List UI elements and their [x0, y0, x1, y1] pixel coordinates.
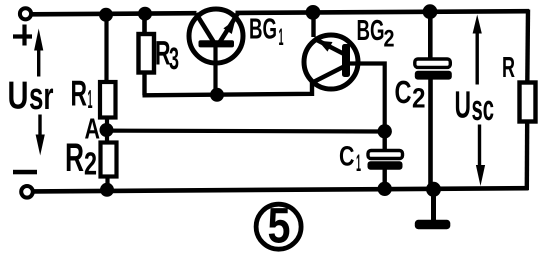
svg-text:5: 5 [268, 198, 291, 254]
svg-text:sr: sr [29, 76, 54, 118]
label R2 [65, 136, 97, 182]
svg-text:1: 1 [356, 150, 361, 177]
node dot BG1 base [210, 88, 224, 102]
terminal + input [20, 8, 31, 19]
svg-text:BG: BG [249, 13, 277, 45]
BG1 emitter arrowhead [223, 20, 235, 34]
svg-text:A: A [85, 114, 101, 146]
wire top rail right (BG1 emitter to right corner) [236, 11, 530, 13]
BG2 base bar [342, 44, 350, 77]
svg-text:C: C [395, 74, 412, 110]
wire right rail upper [525, 10, 530, 85]
node dot R1 top [99, 8, 113, 22]
transistor BG2 [304, 35, 358, 89]
wire bottom rail [33, 188, 529, 191]
label Usc [455, 85, 495, 128]
svg-text:1: 1 [279, 24, 284, 51]
capacitor C1 [368, 131, 403, 190]
node dot C2 top rail [423, 4, 438, 19]
ground [415, 189, 451, 229]
BG2 emitter line [314, 39, 343, 54]
minus sign [13, 170, 37, 175]
resistor R [520, 83, 536, 122]
capacitor C2 [415, 12, 452, 190]
resistor R3 [139, 34, 155, 73]
figure number 5 [256, 198, 301, 254]
label R1 [71, 73, 93, 115]
BG1 base lead [213, 46, 217, 95]
node dot C1 top [378, 124, 392, 138]
wire R3 top drop [142, 14, 147, 36]
BG1 emitter line [220, 13, 239, 42]
node dot R3 top [138, 7, 152, 21]
resistor R1 [100, 82, 116, 118]
BG1 collector line [196, 14, 214, 43]
svg-text:3: 3 [169, 41, 179, 76]
Usc arrow down [476, 125, 485, 187]
node A [100, 123, 114, 137]
label BG1 [249, 13, 284, 51]
wire BG2 base lead to node x385 [349, 64, 385, 134]
wire top rail left (input terminal to BG1 collector) [32, 13, 197, 14]
svg-text:BG: BG [357, 15, 385, 47]
svg-text:2: 2 [84, 146, 97, 182]
node dot ground rail [426, 182, 441, 197]
wire R2 bottom [105, 177, 109, 191]
label C1 [339, 141, 361, 178]
svg-text:R: R [65, 136, 84, 180]
wire R1 top drop [104, 15, 108, 84]
wire R3 bottom drop [142, 73, 146, 96]
svg-text:1: 1 [88, 84, 93, 114]
transistor BG1 [189, 9, 243, 95]
node dot R2 bottom rail [100, 183, 114, 197]
terminal - input [21, 186, 33, 198]
wire BG2 emitter stub [311, 13, 315, 37]
wire node A rail y131 [107, 129, 386, 134]
label Usr [8, 75, 54, 118]
svg-text:U: U [455, 85, 472, 127]
BG1 base bar [199, 40, 235, 47]
label R3 [155, 35, 179, 77]
svg-text:U: U [8, 75, 29, 118]
Usr arrow down [36, 115, 45, 156]
plus sign [13, 25, 32, 46]
BG2 emitter arrowhead [318, 41, 333, 52]
svg-text:R: R [502, 52, 515, 84]
svg-text:sc: sc [472, 87, 495, 128]
wire right rail lower [525, 121, 530, 190]
node dot C1 bottom rail [378, 182, 392, 196]
svg-text:C: C [339, 141, 355, 172]
svg-text:2: 2 [412, 83, 426, 114]
resistor R2 [101, 143, 117, 177]
BG2 collector line [313, 67, 344, 83]
Usc arrow up [473, 15, 482, 85]
label BG2 [357, 15, 395, 53]
svg-text:2: 2 [384, 26, 395, 53]
label C2 [395, 74, 426, 114]
node dot BG2 emitter on top rail [306, 5, 321, 20]
wire R1 bottom to node A [105, 118, 109, 145]
wire y95 (R3/BG1 base/BG2 collector) [143, 80, 313, 95]
svg-text:R: R [71, 73, 88, 114]
Usr arrow up [34, 29, 43, 77]
